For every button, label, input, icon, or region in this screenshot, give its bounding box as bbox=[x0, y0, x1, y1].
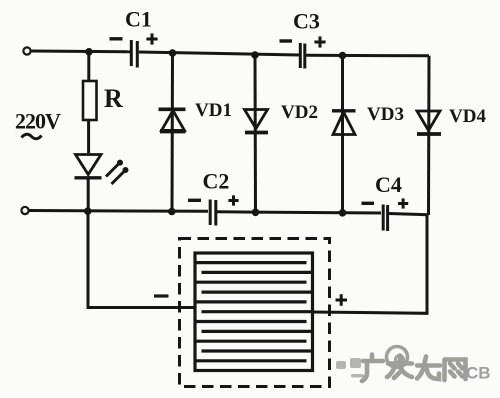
node VD3 bottom junction bbox=[339, 209, 347, 217]
label C4 minus bbox=[362, 202, 375, 205]
svg-text:VD3: VD3 bbox=[367, 104, 404, 125]
svg-text:220V: 220V bbox=[15, 109, 61, 134]
label C1 plus bbox=[146, 33, 157, 44]
wire mid rail: C2 to C4 bbox=[217, 212, 381, 213]
diode VD1 bbox=[159, 109, 186, 131]
svg-text:C3: C3 bbox=[293, 9, 320, 34]
node VD2 top junction bbox=[251, 51, 259, 59]
svg-text:CB: CB bbox=[466, 364, 491, 383]
node VD3 top junction bbox=[339, 52, 347, 60]
svg-text:R: R bbox=[104, 84, 123, 113]
label C3 plus bbox=[314, 36, 325, 47]
capacitor C3 bbox=[300, 43, 305, 69]
svg-text:VD4: VD4 bbox=[449, 106, 486, 127]
wire VD2 branch bbox=[254, 55, 258, 213]
ionizer grid dashed enclosure bbox=[180, 239, 330, 387]
LED indicator lamp bbox=[75, 155, 129, 185]
node R top junction bbox=[85, 48, 93, 56]
wire LED to mid rail bbox=[87, 178, 90, 212]
wire VD1 branch bbox=[171, 53, 175, 212]
capacitor C1 bbox=[131, 40, 137, 68]
label C2 plus bbox=[228, 195, 238, 205]
wire top rail: C1 to C3 bbox=[139, 52, 299, 55]
ionizer grid electrode plate bbox=[195, 253, 313, 371]
svg-text:C4: C4 bbox=[375, 172, 402, 197]
wire negative electrode drop bbox=[88, 212, 195, 308]
wire mid rail: T2 to C2 bbox=[29, 209, 208, 213]
label C2 minus bbox=[188, 199, 201, 202]
wire VD3 branch bbox=[341, 56, 344, 214]
wire VD4 branch bbox=[427, 56, 431, 215]
wire mid rail: C4 to right corner bbox=[389, 214, 429, 215]
terminal T2 mid-left bbox=[21, 207, 28, 214]
capacitor C2 bbox=[210, 200, 216, 226]
wire top rail: C3 to top-right corner bbox=[306, 54, 429, 58]
label grid plus bbox=[336, 294, 348, 306]
label AC tilde bbox=[22, 134, 42, 139]
wire R to LED lead bbox=[87, 120, 90, 153]
node LED bottom junction bbox=[84, 207, 92, 215]
resistor R bbox=[83, 81, 97, 120]
label C3 minus bbox=[280, 39, 293, 42]
node VD1 top junction bbox=[169, 49, 177, 57]
diode VD2 bbox=[245, 110, 269, 133]
wire top rail: T1 to C1 bbox=[31, 50, 130, 54]
label C4 plus bbox=[398, 198, 408, 208]
node VD2 bottom junction bbox=[252, 209, 260, 217]
svg-text:VD1: VD1 bbox=[195, 100, 232, 121]
diode VD3 bbox=[332, 111, 356, 135]
capacitor C4 bbox=[383, 205, 387, 232]
diode VD4 bbox=[417, 111, 441, 134]
watermark logo circle bbox=[387, 347, 408, 368]
label C1 minus bbox=[110, 37, 123, 40]
label grid minus bbox=[154, 294, 169, 297]
node VD1 bottom junction bbox=[168, 208, 176, 216]
wire positive electrode riser bbox=[313, 215, 428, 313]
svg-text:C1: C1 bbox=[125, 7, 152, 32]
watermark smudge bbox=[336, 358, 364, 378]
svg-text:C2: C2 bbox=[203, 169, 230, 194]
terminal T1 top-left bbox=[23, 47, 30, 54]
wire R top lead bbox=[87, 52, 90, 81]
watermark text 广东龙网 bbox=[362, 355, 466, 382]
svg-text:VD2: VD2 bbox=[281, 102, 318, 123]
